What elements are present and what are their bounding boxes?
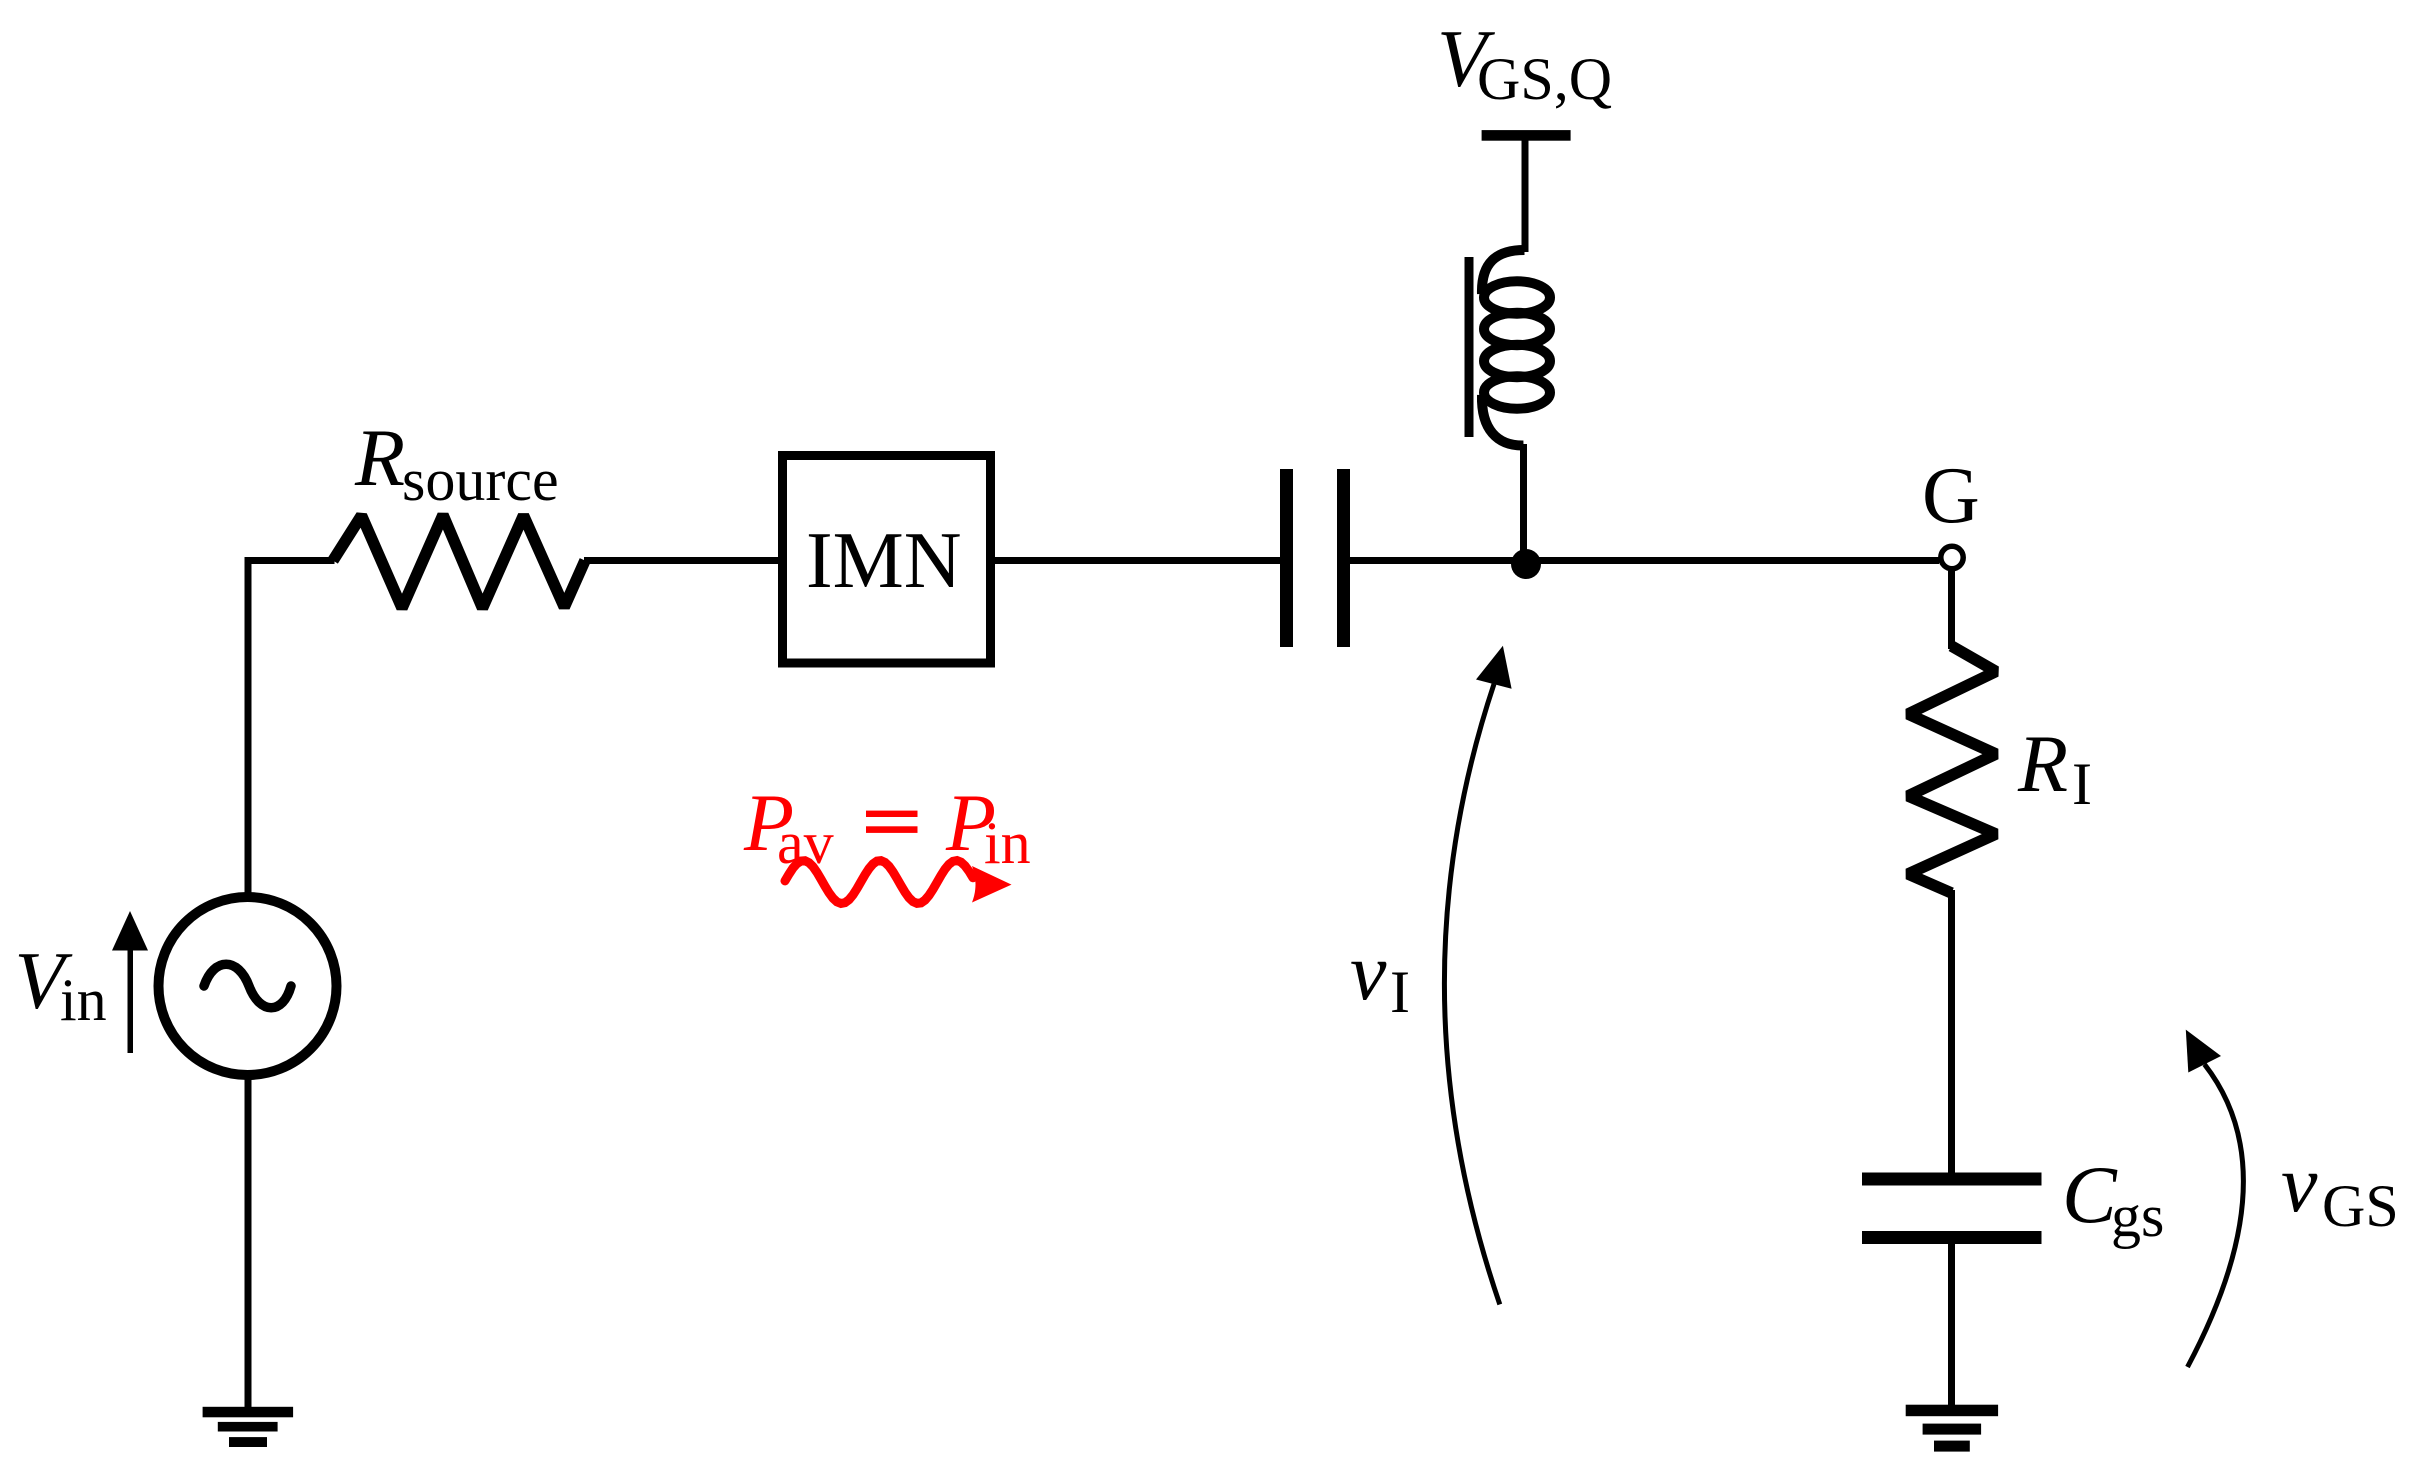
svg-text:v: v: [2281, 1138, 2318, 1229]
label Cgs: [2062, 1149, 2164, 1249]
wire left horizontal: [245, 557, 335, 564]
ground right: [1906, 1405, 1998, 1452]
red arrow head: [972, 866, 1012, 903]
label V_GS,Q: [1437, 13, 1612, 112]
block IMN: [783, 456, 991, 664]
ground left: [203, 1407, 294, 1447]
supply rail V_GS,Q: [1482, 130, 1571, 141]
svg-text:gs: gs: [2111, 1183, 2164, 1249]
svg-text:av: av: [777, 810, 834, 876]
wire capacitor to G: [1350, 557, 1939, 564]
wire supply stem: [1522, 139, 1529, 252]
wire RI to Cgs: [1948, 890, 1955, 1174]
svg-text:R: R: [2017, 718, 2068, 809]
wire IMN to capacitor: [991, 557, 1280, 564]
capacitor C1: [1280, 469, 1350, 647]
wire G to RI: [1948, 571, 1955, 649]
svg-text:IMN: IMN: [806, 517, 962, 605]
node junction: [1511, 549, 1541, 579]
label RI: [2017, 718, 2092, 817]
arrow vGS: [2188, 1064, 2244, 1367]
svg-text:GS: GS: [2322, 1173, 2399, 1239]
wire left corner vertical: [245, 557, 252, 893]
wire Cgs to ground: [1948, 1242, 1955, 1407]
svg-text:C: C: [2062, 1149, 2118, 1240]
resistor Rsource: [333, 515, 585, 608]
label vGS: [2281, 1138, 2399, 1239]
arrow Vin: [128, 948, 134, 1053]
arrow vGS head: [2186, 1030, 2221, 1073]
wire source to ground: [245, 1074, 252, 1408]
svg-text:I: I: [1390, 959, 1410, 1025]
arrow vI head: [1476, 646, 1512, 689]
label vI: [1350, 926, 1410, 1025]
svg-text:I: I: [2072, 751, 2092, 817]
arrow Vin head: [112, 911, 148, 951]
red label Pav = Pin: [743, 777, 1031, 876]
wire coil to junction: [1520, 444, 1527, 564]
svg-text:R: R: [354, 412, 405, 503]
svg-text:v: v: [1350, 926, 1387, 1017]
resistor RI: [1908, 646, 1996, 893]
terminal G: [1941, 546, 1963, 568]
inductor L1: [1482, 250, 1550, 446]
red power wavy arrow: [785, 861, 973, 904]
capacitor Cgs: [1862, 1173, 2042, 1245]
svg-text:source: source: [402, 447, 559, 513]
source sine: [204, 964, 291, 1008]
inductor core bar: [1465, 257, 1474, 437]
wire resistor to IMN: [584, 557, 782, 564]
label Rsource: [354, 412, 559, 513]
voltage source Vin: [159, 897, 337, 1075]
svg-text:GS,Q: GS,Q: [1477, 46, 1612, 112]
svg-text:G: G: [1922, 452, 1980, 540]
label Vin: [15, 935, 107, 1033]
svg-text:in: in: [60, 967, 107, 1033]
arrow vI: [1444, 684, 1499, 1304]
svg-text:in: in: [984, 810, 1031, 876]
